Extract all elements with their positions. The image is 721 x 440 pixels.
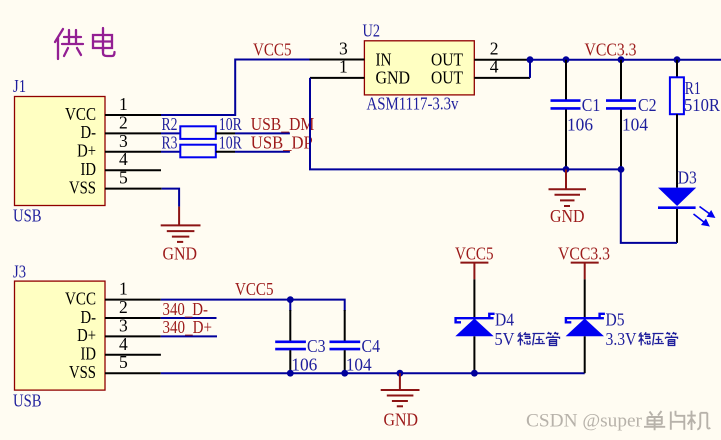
net label USB_DM xyxy=(251,114,315,134)
svg-text:VCC3.3: VCC3.3 xyxy=(585,40,637,60)
svg-text:VCC5: VCC5 xyxy=(253,40,292,60)
net label USB_DP xyxy=(251,133,313,153)
junction D4 xyxy=(471,370,478,377)
svg-text:VSS: VSS xyxy=(69,177,96,197)
svg-text:OUT: OUT xyxy=(431,50,463,70)
capacitor C3 xyxy=(275,300,306,374)
C3 value 106 xyxy=(291,355,317,375)
junction C1 top xyxy=(563,56,570,63)
wire 340_D- xyxy=(161,317,217,319)
C4 designator xyxy=(362,336,381,356)
U2 pin 1 stub xyxy=(310,77,364,79)
U2 pin names xyxy=(376,50,464,88)
svg-text:GND: GND xyxy=(384,409,419,429)
svg-text:D+: D+ xyxy=(77,325,96,345)
ground under J1 xyxy=(161,207,201,242)
D5 comment 3.3V stabilizer xyxy=(606,329,678,349)
svg-text:3: 3 xyxy=(339,39,348,59)
J1 pin 2 stub xyxy=(105,132,161,134)
D4 comment 5V stabilizer xyxy=(495,329,560,349)
GND label C1 xyxy=(550,206,585,226)
wire to R2 xyxy=(161,132,180,134)
net label VCC5 bottom xyxy=(235,279,274,299)
R2 value 10R xyxy=(219,114,242,134)
svg-text:1: 1 xyxy=(119,279,128,299)
svg-text:C2: C2 xyxy=(638,95,657,115)
svg-text:GND: GND xyxy=(376,68,411,88)
wire VSS to ground xyxy=(162,189,179,207)
svg-text:USB_DP: USB_DP xyxy=(251,133,313,153)
capacitor C1 xyxy=(551,60,581,170)
J1 designator xyxy=(13,76,26,96)
svg-text:CSDN @super: CSDN @super xyxy=(526,411,642,431)
D5 anode wire xyxy=(584,279,586,318)
svg-text:D-: D- xyxy=(81,307,97,327)
svg-text:D+: D+ xyxy=(77,141,96,161)
D4 designator xyxy=(495,310,514,330)
J1 pin 1 stub xyxy=(105,114,161,116)
connector J1 box xyxy=(15,97,106,206)
svg-text:ASM1117-3.3v: ASM1117-3.3v xyxy=(367,94,459,114)
wire D3 return xyxy=(621,169,677,243)
svg-text:340_D+: 340_D+ xyxy=(163,317,213,337)
net label 340_D+ xyxy=(163,317,213,337)
junction at U2 out xyxy=(527,56,534,63)
resistor R2 xyxy=(180,126,216,139)
U2 designator xyxy=(363,21,381,41)
net label 340_D- xyxy=(163,299,209,319)
svg-text:2: 2 xyxy=(490,39,499,59)
wire VCC5 from J1.1 xyxy=(161,60,310,116)
J3 pin 1 stub xyxy=(105,299,161,301)
svg-text:D-: D- xyxy=(81,122,97,142)
C2 designator xyxy=(638,95,657,115)
svg-text:106: 106 xyxy=(291,355,317,375)
R2 designator xyxy=(162,114,178,134)
power port VCC3.3 (D5) xyxy=(558,244,610,280)
ground bottom middle xyxy=(381,373,420,406)
junction C2 top xyxy=(618,56,625,63)
svg-text:OUT: OUT xyxy=(431,68,463,88)
J1 pin 3 stub xyxy=(105,151,161,153)
J1 type USB xyxy=(13,206,42,226)
capacitor C4 xyxy=(330,310,361,373)
svg-text:104: 104 xyxy=(346,355,372,375)
D3 arrows xyxy=(694,207,715,226)
wire USB_DM xyxy=(235,132,290,134)
C1 value 106 xyxy=(567,115,593,135)
D5 designator xyxy=(606,310,625,330)
R1 designator xyxy=(685,78,701,98)
svg-text:VSS: VSS xyxy=(69,362,96,382)
junction C1 bottom xyxy=(563,166,570,173)
svg-text:1: 1 xyxy=(119,94,128,114)
GND label J1 xyxy=(163,244,198,264)
R1 value 510R xyxy=(684,95,720,115)
svg-text:VCC: VCC xyxy=(65,288,96,308)
junction C3 bottom xyxy=(287,370,294,377)
junction C3 top xyxy=(287,296,294,303)
resistor R1 xyxy=(670,60,684,188)
svg-text:USB: USB xyxy=(13,206,42,226)
regulator U2 box xyxy=(364,41,474,95)
net label VCC3.3 xyxy=(585,40,637,60)
wire VCC3.3 rail xyxy=(530,59,721,61)
J1 pin 5 stub xyxy=(105,188,162,190)
wire U2 GND loop xyxy=(310,78,621,169)
J3 designator xyxy=(13,262,26,282)
net label VCC5 xyxy=(253,40,292,60)
C3 designator xyxy=(307,336,326,356)
LED D3 xyxy=(658,188,696,243)
J1 pin 4 stub xyxy=(105,169,161,171)
svg-text:10R: 10R xyxy=(219,132,242,152)
svg-text:ID: ID xyxy=(81,344,97,364)
svg-text:C1: C1 xyxy=(582,95,601,115)
J1 pin numbers xyxy=(119,94,128,188)
D3 designator xyxy=(678,168,697,188)
GND label bottom xyxy=(384,409,419,429)
svg-text:3.3V: 3.3V xyxy=(606,329,637,349)
svg-text:D3: D3 xyxy=(678,168,697,188)
svg-text:D4: D4 xyxy=(495,310,514,330)
J3 pin 2 stub xyxy=(105,317,161,319)
capacitor C2 xyxy=(606,60,636,170)
R2 right pin xyxy=(216,132,235,134)
J3 pin 4 stub xyxy=(105,354,161,356)
wire 340_D+ xyxy=(161,335,217,337)
svg-text:J3: J3 xyxy=(13,262,26,282)
svg-text:106: 106 xyxy=(567,115,593,135)
svg-text:R2: R2 xyxy=(162,114,178,134)
wire ground rail bottom xyxy=(161,372,585,374)
svg-text:510R: 510R xyxy=(684,95,720,115)
svg-text:GND: GND xyxy=(163,244,198,264)
C1 designator xyxy=(582,95,601,115)
watermark CSDN @super xyxy=(526,411,710,432)
svg-text:ID: ID xyxy=(81,159,97,179)
wire pin4 up xyxy=(529,60,531,78)
wire USB_DP xyxy=(235,151,290,153)
svg-text:R3: R3 xyxy=(162,132,178,152)
U2 pin numbers xyxy=(339,39,499,77)
R3 designator xyxy=(162,132,178,152)
junction R1 top xyxy=(674,56,681,63)
zener D5 xyxy=(566,314,605,373)
svg-text:IN: IN xyxy=(376,50,392,70)
J3 type USB xyxy=(13,391,42,411)
wire VCC5 bottom xyxy=(161,300,345,311)
resistor R3 xyxy=(180,145,216,158)
svg-text:J1: J1 xyxy=(13,76,26,96)
svg-text:U2: U2 xyxy=(363,21,381,41)
power port VCC5 (D4) xyxy=(455,244,494,280)
connector J3 box xyxy=(15,281,106,390)
svg-text:GND: GND xyxy=(550,206,585,226)
U2 pin 4 stub xyxy=(474,77,530,79)
J3 pin numbers xyxy=(119,279,128,373)
J3 pin names xyxy=(65,288,96,382)
svg-text:104: 104 xyxy=(622,115,648,135)
svg-text:VCC5: VCC5 xyxy=(235,279,274,299)
junction C2 bottom xyxy=(618,166,625,173)
ground under C1 xyxy=(549,169,587,206)
svg-text:USB: USB xyxy=(13,391,42,411)
J1 pin names xyxy=(65,104,96,198)
U2 pin 2 stub xyxy=(474,59,530,61)
svg-text:340_D-: 340_D- xyxy=(163,299,209,319)
R3 value 10R xyxy=(219,132,242,152)
junction GND stub xyxy=(397,370,404,377)
svg-text:10R: 10R xyxy=(219,114,242,134)
zener D4 xyxy=(455,314,494,373)
svg-text:C4: C4 xyxy=(362,336,381,356)
U2 part ASM1117-3.3v xyxy=(367,94,459,114)
J3 pin 3 stub xyxy=(105,335,161,337)
svg-text:USB_DM: USB_DM xyxy=(251,114,315,134)
junction C4 bottom xyxy=(341,370,348,377)
svg-text:5V: 5V xyxy=(495,329,515,349)
J3 pin 5 stub xyxy=(105,372,161,374)
wire to R3 xyxy=(161,151,180,153)
C4 value 104 xyxy=(346,355,372,375)
D4 anode wire xyxy=(473,279,475,318)
svg-text:D5: D5 xyxy=(606,310,625,330)
svg-text:VCC: VCC xyxy=(65,104,96,124)
title 供电 xyxy=(55,28,115,59)
U2 pin 3 stub xyxy=(310,59,365,61)
svg-text:C3: C3 xyxy=(307,336,326,356)
svg-text:VCC3.3: VCC3.3 xyxy=(558,244,610,264)
svg-text:VCC5: VCC5 xyxy=(455,244,494,264)
R3 right pin xyxy=(216,151,235,153)
C2 value 104 xyxy=(622,115,648,135)
